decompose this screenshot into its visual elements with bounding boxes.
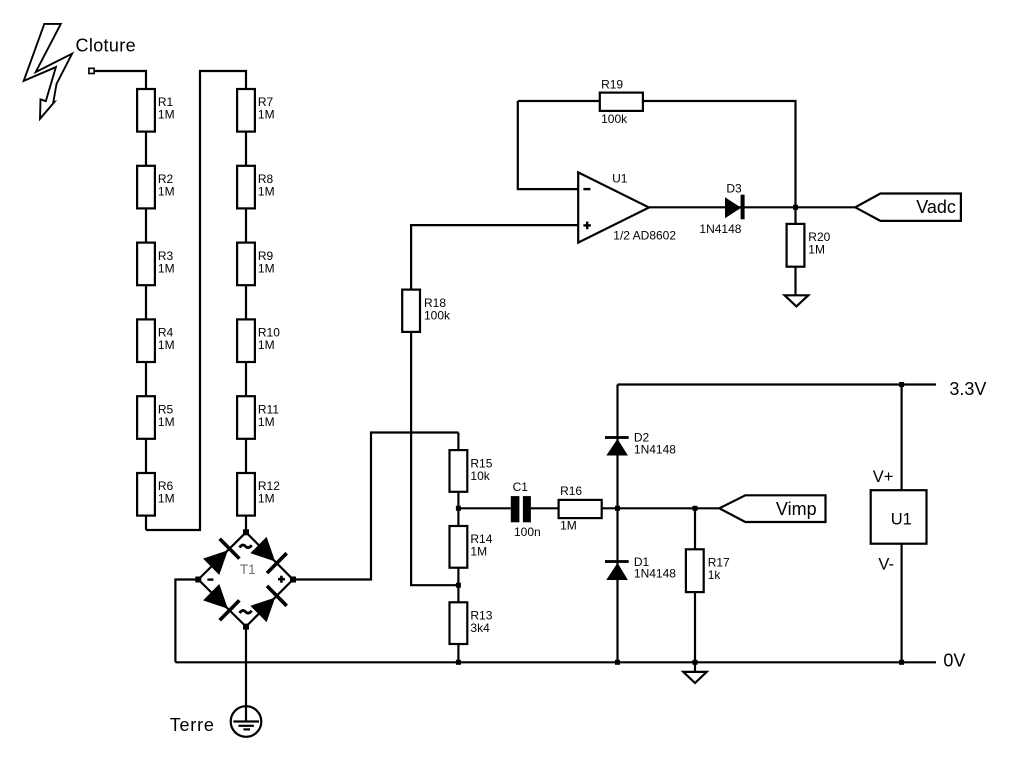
svg-text:100k: 100k [601, 112, 628, 126]
node dot R13 bottom on 0V rail [456, 660, 461, 665]
svg-text:1M: 1M [258, 338, 275, 352]
node Cloture terminal [89, 68, 94, 73]
resistor R15 [450, 450, 468, 492]
ground symbol below 0V rail at R17 [683, 662, 706, 683]
svg-text:1M: 1M [560, 518, 577, 532]
bridge plus sign [278, 576, 285, 583]
svg-text:R16: R16 [560, 484, 582, 498]
node dot R17 bottom on 0V rail [693, 660, 698, 665]
svg-text:1N4148: 1N4148 [634, 567, 676, 581]
resistor R10 [237, 319, 255, 362]
wire bridge bottom to earth [245, 627, 247, 722]
resistor R5 [137, 396, 155, 439]
wire C1 to R16 [531, 507, 559, 509]
lightning bolt arrow (fence pulse symbol) [24, 24, 72, 119]
capacitor C1 [511, 496, 531, 522]
bridge minus sign [207, 578, 213, 580]
bridge AC tilde top [240, 545, 252, 548]
diode D2 [605, 436, 629, 455]
net tag Vadc [855, 194, 961, 221]
node dot U1 on 0V rail [899, 660, 904, 665]
resistor R4 [137, 319, 155, 362]
net tag Vimp [719, 495, 825, 522]
bridge diode top-left [201, 537, 240, 576]
resistor R13 [450, 602, 468, 644]
resistor R12 [237, 473, 255, 516]
svg-text:Terre: Terre [170, 715, 215, 735]
node dot 3.3V at U1 supply [899, 382, 904, 387]
resistor R9 [237, 243, 255, 286]
svg-text:U1: U1 [612, 172, 628, 186]
svg-text:1M: 1M [158, 492, 175, 506]
svg-text:1N4148: 1N4148 [634, 442, 676, 456]
IC U1 supply wire [900, 385, 902, 663]
svg-text:Cloture: Cloture [76, 36, 136, 56]
svg-text:T1: T1 [240, 562, 256, 577]
svg-text:3.3V: 3.3V [949, 379, 986, 399]
wire R17 from Vimp node to 0V rail [694, 508, 696, 662]
svg-text:D3: D3 [726, 181, 742, 195]
node dot bridge top [243, 529, 249, 535]
svg-text:1k: 1k [708, 568, 722, 582]
svg-text:C1: C1 [513, 480, 529, 494]
svg-text:1M: 1M [470, 545, 487, 559]
node dot bridge bottom [243, 624, 249, 630]
svg-text:1M: 1M [258, 261, 275, 275]
svg-text:1M: 1M [258, 415, 275, 429]
svg-text:U1: U1 [891, 510, 912, 528]
node dot bridge right [290, 577, 296, 583]
wire 0V rail [175, 661, 936, 663]
node dot R14-R13 junction [456, 583, 461, 588]
wire R15/R14/R13 spine [457, 433, 459, 663]
resistor R20 [787, 224, 805, 267]
node dot D1-D2 junction [615, 506, 620, 511]
node dot D column on 0V rail [615, 660, 620, 665]
svg-text:0V: 0V [943, 651, 965, 671]
svg-text:1M: 1M [158, 108, 175, 122]
diode D1 [605, 560, 629, 580]
svg-text:R19: R19 [601, 78, 623, 92]
node dot R17 top junction [693, 506, 698, 511]
ground symbol below R20 [785, 295, 809, 306]
svg-text:1M: 1M [258, 108, 275, 122]
svg-text:1/2 AD8602: 1/2 AD8602 [613, 228, 676, 242]
svg-text:V+: V+ [873, 468, 894, 486]
svg-text:1M: 1M [158, 338, 175, 352]
resistor R3 [137, 243, 155, 286]
resistor R18 [402, 290, 420, 332]
op-amp plus symbol [583, 222, 591, 230]
wire op-amp output to Vadc [649, 206, 855, 208]
svg-text:1M: 1M [158, 415, 175, 429]
svg-text:1M: 1M [258, 185, 275, 199]
bridge diode bottom-right [249, 585, 288, 624]
resistor R7 [237, 89, 255, 132]
bridge AC tilde bottom [240, 611, 252, 614]
node dot bridge left [195, 577, 201, 583]
op-amp U1 triangle [578, 172, 649, 242]
resistor R6 [137, 473, 155, 516]
wire R18 bottom to R14/R13 junction [411, 332, 458, 585]
wire bridge left node to 0V rail [175, 580, 198, 663]
wire C1 left [458, 507, 510, 509]
svg-text:1N4148: 1N4148 [699, 222, 741, 236]
resistor R19 [600, 93, 643, 111]
bridge rectifier T1 diamond [198, 532, 293, 626]
resistor R11 [237, 396, 255, 439]
svg-text:10k: 10k [470, 469, 490, 483]
node dot output/R20 junction [793, 205, 798, 210]
wire clamp diode column 3.3V to 0V [616, 385, 618, 663]
resistor R1 [137, 89, 155, 132]
svg-text:Vadc: Vadc [916, 197, 956, 217]
wire op-amp + input to R18 [411, 225, 578, 290]
wire R20 from node [794, 207, 796, 295]
svg-text:1M: 1M [258, 492, 275, 506]
svg-text:1M: 1M [158, 185, 175, 199]
resistor R8 [237, 166, 255, 209]
svg-text:V-: V- [878, 555, 894, 573]
wire column1 R1..R6 spine [145, 89, 147, 530]
wire 3.3V rail [618, 383, 937, 385]
earth ground symbol (Terre) [231, 706, 262, 737]
wire terminal to R1 [94, 71, 146, 89]
node dot R15-R14 junction [456, 506, 461, 511]
op-amp minus symbol [583, 188, 590, 190]
svg-text:1M: 1M [158, 261, 175, 275]
svg-text:1M: 1M [808, 243, 825, 257]
resistor R17 [686, 549, 704, 592]
wire op-amp - input feedback [518, 101, 578, 189]
bridge diode bottom-left [201, 582, 240, 621]
svg-text:3k4: 3k4 [470, 621, 490, 635]
wire column2 R7..R12 spine [245, 89, 247, 532]
wire feedback top to R19 [518, 100, 600, 102]
wire R16 to Vimp tag [602, 507, 720, 509]
IC U1 box [871, 490, 927, 544]
resistor R2 [137, 166, 155, 209]
svg-text:Vimp: Vimp [776, 499, 817, 519]
wire R19 right to output node [643, 101, 796, 207]
wire bridge right node to R15 top [293, 433, 458, 580]
svg-text:100n: 100n [514, 525, 541, 539]
bridge diode top-right [249, 535, 288, 574]
resistor R16 [559, 500, 602, 518]
resistor R14 [450, 526, 468, 568]
diode D3 [725, 195, 745, 220]
svg-text:100k: 100k [424, 308, 451, 322]
wire R6 bottom to column2 riser [146, 71, 246, 530]
